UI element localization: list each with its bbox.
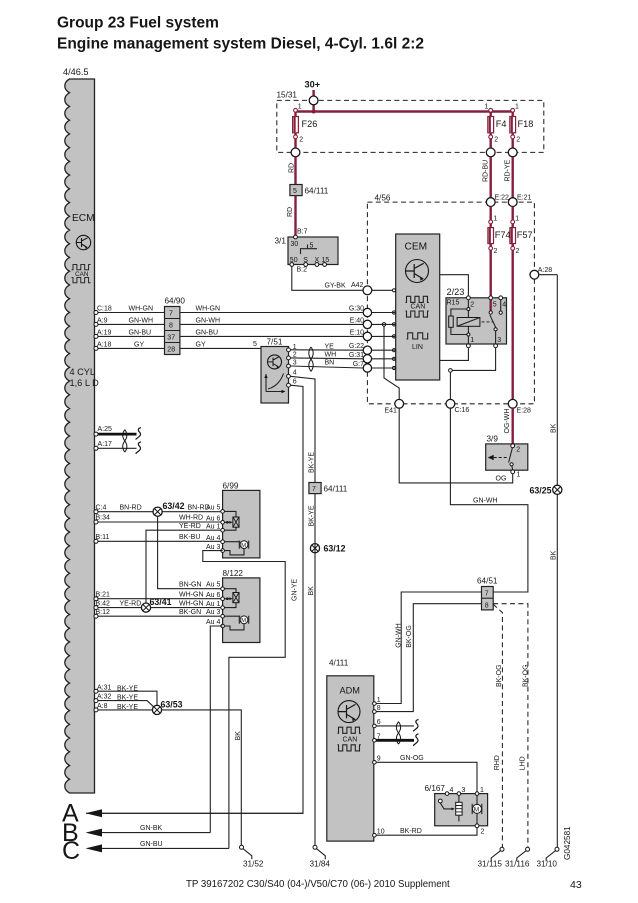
EGR valve 8/122 — [206, 569, 260, 643]
svg-text:2: 2 — [494, 248, 498, 255]
svg-text:30+: 30+ — [305, 80, 321, 90]
svg-text:31/116: 31/116 — [505, 860, 530, 869]
svg-text:GN-YE: GN-YE — [292, 579, 299, 602]
svg-text:A:8: A:8 — [97, 703, 108, 710]
svg-text:YE-RD: YE-RD — [120, 600, 142, 607]
svg-text:7/51: 7/51 — [267, 338, 283, 347]
svg-text:E:40: E:40 — [350, 317, 365, 324]
fuse F4 — [485, 104, 507, 153]
svg-text:2: 2 — [299, 137, 303, 144]
wire YE-RD splice 63/41 to 6/99 Au1 — [146, 523, 223, 608]
ignition switch 3/1 — [275, 235, 339, 273]
wire OG E41 to 3/9 pin1 — [399, 408, 513, 483]
svg-text:1,6 L D: 1,6 L D — [70, 378, 100, 388]
twisted pair symbol ADM — [396, 722, 400, 744]
svg-text:BN-GN: BN-GN — [179, 582, 202, 589]
svg-text:7: 7 — [485, 591, 489, 598]
svg-text:3: 3 — [462, 787, 466, 794]
svg-text:64/111: 64/111 — [324, 485, 348, 494]
wire GN-WH A:9 to E:40 — [94, 317, 363, 326]
svg-text:Au 4: Au 4 — [206, 535, 221, 542]
CEM LIN symbol — [407, 333, 428, 351]
svg-text:R15: R15 — [447, 300, 460, 307]
wire relay pin1 to CEM — [440, 348, 469, 361]
ECM CAN symbol — [72, 265, 91, 283]
svg-text:5: 5 — [310, 243, 314, 250]
svg-text:4: 4 — [502, 302, 506, 309]
wire RD 64/111 to 3/1 — [287, 196, 308, 237]
connector 64/111 pin 7 — [309, 483, 348, 494]
svg-text:GN-WH: GN-WH — [396, 623, 403, 648]
svg-text:2: 2 — [470, 302, 474, 309]
svg-text:C: C — [62, 837, 80, 865]
wire GN-YE 6/99 Au3 to arrow C — [203, 551, 299, 849]
svg-text:BK-YE: BK-YE — [117, 704, 138, 711]
splice 63/12 — [310, 544, 345, 554]
svg-text:B:7: B:7 — [297, 229, 308, 236]
svg-text:LHD: LHD — [519, 756, 526, 770]
svg-text:WH-GN: WH-GN — [179, 600, 204, 607]
svg-text:G042581: G042581 — [563, 826, 572, 860]
svg-text:9: 9 — [377, 755, 381, 762]
svg-text:BK: BK — [235, 731, 242, 741]
svg-text:63/53: 63/53 — [161, 699, 183, 709]
svg-text:GN-WH: GN-WH — [129, 317, 154, 324]
svg-text:B:2: B:2 — [297, 267, 308, 274]
svg-text:WH-GN: WH-GN — [179, 591, 204, 598]
wire WH 7/51 pin2 to G:31 — [290, 352, 363, 359]
svg-text:E41: E41 — [385, 408, 398, 415]
svg-text:15/31: 15/31 — [277, 91, 298, 100]
svg-text:4 CYL: 4 CYL — [70, 367, 96, 377]
svg-text:1: 1 — [515, 104, 519, 111]
wire BK 63/12 to ground 31/84 — [308, 553, 315, 847]
svg-text:A:9: A:9 — [97, 317, 108, 324]
fuse F18 — [510, 104, 534, 153]
svg-text:GN-OG: GN-OG — [400, 755, 424, 762]
svg-text:31/84: 31/84 — [310, 860, 331, 869]
svg-text:43: 43 — [570, 879, 582, 891]
svg-text:F4: F4 — [496, 119, 507, 129]
wire RD F26 to 64/111 — [289, 157, 296, 185]
svg-text:1: 1 — [493, 216, 497, 223]
connector 64/90 — [165, 297, 186, 355]
throttle unit 6/99 — [206, 482, 260, 558]
svg-text:OG: OG — [496, 476, 507, 483]
fuse F74 — [488, 207, 511, 297]
ADM CAN symbol — [338, 727, 361, 751]
junction E:28 — [508, 399, 531, 414]
wire BK-YE A:32 to splice 63/53 — [94, 694, 154, 708]
fuel cutoff switch 3/9 — [486, 435, 528, 479]
svg-text:5: 5 — [293, 188, 297, 195]
ground 31/116 — [505, 847, 530, 868]
CAN stub A:17 — [94, 441, 141, 454]
svg-text:F74: F74 — [495, 230, 511, 240]
svg-text:Au 1: Au 1 — [206, 523, 221, 530]
svg-text:2/23: 2/23 — [447, 287, 465, 297]
svg-text:7: 7 — [312, 486, 316, 493]
svg-text:B:12: B:12 — [96, 609, 111, 616]
wire YE 7/51 pin1 to G:22 — [290, 343, 363, 350]
ECM module 4/46.5 — [63, 67, 95, 793]
svg-text:64/51: 64/51 — [477, 577, 498, 586]
svg-text:GY: GY — [196, 341, 206, 348]
ECM variant text — [70, 367, 100, 388]
wire BK-OG ADM pin8 to 64/51 pin8 — [376, 604, 481, 712]
svg-text:TP 39167202 C30/S40 (04-)/V50/: TP 39167202 C30/S40 (04-)/V50/C70 (06-) … — [186, 879, 450, 890]
connector 64/111 pin 5 — [290, 185, 329, 196]
svg-text:4: 4 — [450, 787, 454, 794]
ECM transistor symbol — [76, 235, 90, 249]
CEM module — [396, 234, 440, 380]
svg-text:BK-YE: BK-YE — [309, 452, 316, 473]
svg-text:A:17: A:17 — [98, 441, 113, 448]
junction C:16 — [446, 399, 469, 414]
fuse F26 — [293, 104, 318, 153]
svg-text:64/90: 64/90 — [165, 297, 186, 306]
ground 31/52 — [240, 845, 264, 868]
accelerator pedal sensor 7/51 — [261, 338, 297, 404]
svg-text:RD: RD — [289, 163, 296, 173]
svg-text:BN-RD: BN-RD — [120, 504, 142, 511]
svg-text:C:16: C:16 — [455, 407, 470, 414]
svg-text:B:42: B:42 — [96, 600, 111, 607]
svg-text:1: 1 — [517, 472, 521, 479]
svg-text:63/41: 63/41 — [150, 597, 172, 607]
svg-text:BK-YE: BK-YE — [309, 505, 316, 526]
svg-text:BK: BK — [551, 423, 558, 433]
svg-text:A:32: A:32 — [97, 694, 112, 701]
wire BK-YE A:31 to splice 63/53 — [94, 684, 157, 705]
svg-text:BK-GN: BK-GN — [179, 609, 201, 616]
svg-text:Au 5: Au 5 — [206, 504, 221, 511]
svg-text:ADM: ADM — [340, 686, 360, 696]
wire BK-RD 6/167 pin2 to ADM pin10 — [376, 828, 477, 836]
svg-text:LIN: LIN — [412, 344, 423, 351]
svg-text:3: 3 — [293, 359, 297, 366]
svg-text:G:31: G:31 — [349, 352, 364, 359]
svg-text:8: 8 — [169, 323, 173, 330]
svg-text:Au 1: Au 1 — [206, 601, 221, 608]
svg-text:5: 5 — [493, 302, 497, 309]
splice 63/25 — [530, 485, 562, 495]
svg-text:ECM: ECM — [72, 213, 95, 224]
svg-text:BK-YE: BK-YE — [117, 685, 138, 692]
wire BK A:28 to ground 31/10 — [551, 275, 558, 848]
svg-text:Au 4: Au 4 — [206, 619, 221, 626]
svg-text:G:22: G:22 — [349, 343, 364, 350]
wire BK-OG RHD to ground 31/115 — [493, 604, 503, 847]
svg-text:GN-BU: GN-BU — [140, 841, 163, 848]
ADM pin circles — [373, 697, 385, 837]
svg-text:3/9: 3/9 — [487, 435, 499, 444]
svg-text:B:21: B:21 — [96, 591, 111, 598]
twisted pair symbol 7/51 — [309, 347, 313, 371]
splice 63/53 — [152, 699, 182, 714]
svg-text:BK: BK — [551, 550, 558, 560]
wire OG-WH E:28 to 3/9 — [504, 408, 513, 444]
svg-text:B:11: B:11 — [96, 534, 110, 541]
connector 64/51 — [477, 577, 498, 610]
svg-text:31/10: 31/10 — [537, 860, 558, 869]
svg-text:WH: WH — [325, 352, 337, 359]
CEM CAN symbol — [406, 296, 429, 317]
svg-text:10: 10 — [377, 828, 385, 835]
title — [57, 15, 424, 53]
junction E:21 — [508, 195, 531, 207]
red supply bus — [296, 110, 513, 114]
svg-text:BK-BU: BK-BU — [179, 534, 200, 541]
wire BK-YE 7/51 pin4 to 64/111 — [290, 376, 315, 482]
svg-text:4/56: 4/56 — [375, 194, 391, 203]
node arrow C wire GN-BU — [62, 837, 229, 865]
svg-text:8: 8 — [377, 705, 381, 712]
wire WH-RD B:34 to 6/99 Au6 — [94, 515, 223, 524]
junction E41 — [385, 399, 404, 414]
wire relay pin2 to CEM — [440, 275, 469, 296]
CEM pin circles — [392, 289, 395, 370]
wire BK-GN B:12 to 8/122 Au3 — [94, 609, 223, 618]
svg-text:BK-OG: BK-OG — [406, 625, 413, 648]
ADM CAN stub pin 6 — [376, 719, 418, 731]
wire GN-WH 64/51 pin7 to ADM pin1 — [376, 592, 481, 704]
svg-text:WH-RD: WH-RD — [179, 515, 203, 522]
svg-text:F57: F57 — [517, 230, 533, 240]
svg-text:1: 1 — [485, 104, 489, 111]
CEM compartment 4/56 dashed box — [367, 194, 534, 404]
junction A:28 — [530, 267, 557, 279]
svg-text:A:19: A:19 — [97, 329, 112, 336]
svg-text:6/167: 6/167 — [425, 784, 446, 793]
diagram id G042581 — [563, 826, 572, 860]
wire GN-OG ADM pin9 to 6/167 pin1 — [376, 755, 477, 792]
svg-text:E:10: E:10 — [350, 329, 365, 336]
svg-text:63/25: 63/25 — [530, 485, 552, 495]
fuse F57 — [510, 207, 533, 400]
svg-text:63/42: 63/42 — [163, 501, 185, 511]
wire BN 7/51 pin3 to G:7 — [290, 360, 363, 368]
svg-text:5: 5 — [253, 341, 257, 348]
wire RD-BU F4 to E:22 — [483, 157, 491, 202]
junction 30+ entry — [309, 96, 318, 105]
svg-text:Au 6: Au 6 — [206, 515, 221, 522]
svg-text:E:28: E:28 — [517, 408, 532, 415]
svg-text:1: 1 — [470, 337, 474, 344]
svg-text:GN-BU: GN-BU — [129, 329, 152, 336]
wire WH-GN B:21 to 8/122 Au6 — [94, 591, 223, 600]
CEM pins G:30 E:40 E:10 G:22 G:31 G:7 — [349, 306, 396, 373]
svg-text:E:21: E:21 — [517, 195, 532, 202]
wire E:40 branch to E41 — [382, 323, 399, 400]
svg-text:Au 5: Au 5 — [206, 582, 221, 589]
ground 31/10 — [537, 847, 560, 868]
junctions on 15/31 bottom edge — [291, 148, 517, 157]
svg-text:A:31: A:31 — [97, 684, 112, 691]
wire BK-BU B:11 to 6/99 Au4 — [94, 534, 223, 543]
svg-text:2: 2 — [516, 137, 520, 144]
wire GN-BU A:19 to E:10 — [94, 329, 363, 338]
wire BK-OG LHD to ground 31/116 — [493, 604, 529, 848]
svg-text:GN-WH: GN-WH — [473, 497, 498, 504]
svg-text:Engine management system Diese: Engine management system Diesel, 4-Cyl. … — [57, 36, 424, 53]
svg-text:31/115: 31/115 — [478, 860, 503, 869]
svg-text:4/46.5: 4/46.5 — [63, 67, 89, 77]
svg-text:WH-GN: WH-GN — [129, 306, 154, 313]
svg-text:RHD: RHD — [494, 755, 501, 770]
svg-text:M: M — [241, 543, 246, 549]
svg-text:GN-BK: GN-BK — [140, 825, 163, 832]
svg-text:2: 2 — [481, 829, 485, 836]
node arrow B wire GN-BK — [62, 819, 210, 847]
svg-text:2: 2 — [516, 248, 520, 255]
svg-text:63/12: 63/12 — [324, 544, 346, 554]
svg-text:YE-RD: YE-RD — [179, 523, 201, 530]
svg-text:8/122: 8/122 — [223, 569, 244, 578]
wire YE-RD B:42 to 8/122 Au1 via splice 63/41 — [94, 600, 223, 609]
svg-text:BK-YE: BK-YE — [117, 695, 138, 702]
wire GN-WH C:16 to 64/51 pin7 — [450, 408, 528, 592]
svg-text:M: M — [474, 807, 479, 814]
ADM CAN stub pin 7 — [376, 734, 418, 746]
svg-text:GN-BU: GN-BU — [196, 329, 219, 336]
wire BN-RD C:4 to 6/99 Au5 via splice 63/42 — [94, 504, 223, 513]
svg-text:31/52: 31/52 — [243, 860, 264, 869]
svg-text:30: 30 — [291, 241, 299, 248]
wire RD-YE F18 to E:21 — [505, 157, 513, 202]
ground 31/84 — [310, 845, 331, 868]
svg-text:BK-RD: BK-RD — [400, 828, 422, 835]
svg-text:1: 1 — [377, 697, 381, 704]
svg-text:CAN: CAN — [411, 304, 426, 311]
svg-text:A:28: A:28 — [538, 267, 553, 274]
svg-text:F18: F18 — [518, 119, 534, 129]
splice 63/41 — [141, 597, 171, 612]
svg-text:37: 37 — [167, 335, 175, 342]
svg-text:A42: A42 — [351, 282, 364, 289]
wire GY-BK 3/1 pin 50 to A42 — [292, 266, 364, 290]
svg-text:4/111: 4/111 — [329, 659, 349, 668]
svg-text:C:18: C:18 — [97, 306, 112, 313]
CAN stub A:25 — [94, 426, 141, 440]
svg-text:G:7: G:7 — [353, 361, 364, 368]
wire BK-YE A:8 through splice 63/53 to ground 31/52 — [94, 703, 242, 847]
ADM transistor symbol — [338, 701, 360, 723]
svg-text:4: 4 — [293, 370, 297, 377]
svg-text:A:18: A:18 — [97, 341, 112, 348]
svg-text:Au 6: Au 6 — [206, 592, 221, 599]
fuse holder 15/31 dashed box — [277, 91, 544, 153]
svg-text:M: M — [241, 618, 246, 624]
svg-text:CEM: CEM — [405, 242, 428, 253]
svg-text:64/111: 64/111 — [305, 187, 329, 196]
svg-text:6/99: 6/99 — [223, 482, 239, 491]
svg-text:RD-BU: RD-BU — [483, 160, 490, 182]
svg-text:6: 6 — [293, 378, 297, 385]
svg-text:7: 7 — [169, 311, 173, 318]
svg-text:BK: BK — [308, 586, 315, 596]
wire BN-GN splice 63/42 to 8/122 Au5 — [158, 516, 223, 588]
twisted pair symbol A:25/A:17 — [123, 430, 127, 452]
node arrow A — [62, 800, 303, 828]
svg-text:B:34: B:34 — [96, 515, 111, 522]
CEM transistor symbol — [406, 260, 429, 283]
wire WH-GN C:18 to G:30 — [94, 306, 363, 315]
svg-text:CAN: CAN — [75, 271, 89, 278]
svg-text:1: 1 — [515, 216, 519, 223]
svg-text:Group 23 Fuel system: Group 23 Fuel system — [57, 15, 219, 32]
wire 8/122 Au4 to arrow B — [210, 626, 222, 833]
wire GY A:18 to 7/51 pin 5 — [94, 341, 261, 350]
svg-text:Au 3: Au 3 — [206, 544, 221, 551]
svg-text:GY-BK: GY-BK — [325, 283, 346, 290]
svg-text:3: 3 — [497, 337, 501, 344]
svg-text:WH-GN: WH-GN — [196, 306, 221, 313]
svg-text:2: 2 — [494, 137, 498, 144]
svg-text:CAN: CAN — [343, 737, 358, 744]
wire BK-YE 64/111 to splice 63/12 — [309, 494, 316, 544]
svg-text:RD: RD — [287, 207, 294, 217]
junction E:22 — [486, 195, 509, 207]
relay 2/23 R15 — [446, 287, 507, 348]
svg-text:RD-YE: RD-YE — [505, 159, 512, 181]
svg-text:C:4: C:4 — [96, 504, 107, 511]
svg-text:8: 8 — [485, 602, 489, 609]
svg-text:1: 1 — [298, 104, 302, 111]
svg-text:3/1: 3/1 — [275, 237, 287, 246]
svg-text:Au 3: Au 3 — [206, 609, 221, 616]
ground 31/115 — [478, 847, 505, 868]
battery feed 30+ — [305, 80, 321, 112]
splice 63/42 — [153, 501, 185, 517]
svg-text:6: 6 — [377, 719, 381, 726]
wire 7/51 pin6 to arrow A — [86, 385, 303, 813]
svg-text:BN: BN — [325, 360, 335, 367]
svg-text:E:22: E:22 — [495, 195, 510, 202]
svg-text:G:30: G:30 — [349, 306, 364, 313]
svg-text:1: 1 — [480, 787, 484, 794]
footer — [186, 879, 582, 891]
wire relay pin3 to C:16 — [449, 348, 496, 400]
glow plug unit 6/167 — [425, 784, 488, 836]
svg-text:A:25: A:25 — [98, 426, 113, 433]
junction A42 — [363, 286, 396, 295]
svg-text:GY: GY — [134, 341, 144, 348]
svg-text:F26: F26 — [302, 119, 318, 129]
svg-text:YE: YE — [325, 343, 335, 350]
svg-text:28: 28 — [167, 347, 175, 354]
svg-text:GN-WH: GN-WH — [196, 317, 221, 324]
svg-text:BK-OG: BK-OG — [523, 664, 530, 687]
additional control module ADM 4/111 — [327, 659, 374, 842]
svg-text:BK-OG: BK-OG — [496, 664, 503, 687]
svg-text:2: 2 — [516, 447, 520, 454]
svg-text:OG-WH: OG-WH — [504, 409, 511, 434]
